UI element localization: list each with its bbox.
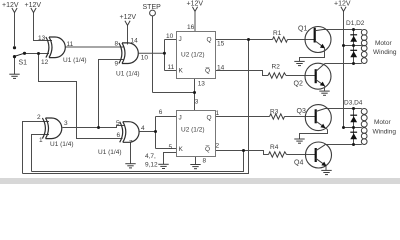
resistor R2 — [268, 64, 286, 79]
junction dot clock — [193, 91, 196, 94]
svg-text:K: K — [179, 146, 184, 153]
svg-text:13: 13 — [198, 80, 206, 87]
wire winding1 center tap — [344, 45, 362, 47]
svg-text:3: 3 — [64, 120, 68, 127]
wire pin9 vertical from XOR3 out — [99, 60, 125, 128]
wire FF2 pins 4,7,9,12 ground stub — [164, 153, 177, 165]
svg-text:U1 (1/4): U1 (1/4) — [50, 141, 73, 148]
transistor Q3 — [297, 105, 332, 139]
svg-text:D3,D4: D3,D4 — [344, 100, 363, 107]
svg-text:U2 (1/2): U2 (1/2) — [181, 127, 204, 134]
svg-text:16: 16 — [187, 24, 195, 31]
svg-text:9: 9 — [115, 61, 119, 68]
ground Q3 emitter — [294, 139, 304, 143]
svg-text:2: 2 — [216, 143, 220, 150]
svg-text:7: 7 — [129, 140, 133, 147]
ground Q4 emitter — [321, 170, 331, 174]
transistor Q4 — [294, 142, 332, 170]
svg-text:Q3: Q3 — [297, 108, 306, 115]
wire feedback outer: pin15 net down to XOR3 pin2 — [23, 40, 249, 174]
power symbol +12V (U2 pin16) — [187, 1, 204, 12]
svg-text:Motor: Motor — [374, 119, 391, 126]
junction dot pin12 — [37, 52, 40, 55]
svg-text:S1: S1 — [19, 60, 28, 67]
wire U1b out pin10 to J/K — [139, 52, 165, 54]
svg-text:11: 11 — [67, 41, 74, 48]
wire +12V to U1 pin 14 — [127, 25, 129, 44]
svg-text:6: 6 — [117, 132, 121, 139]
junction dot U1b out / J-K FF1 — [163, 52, 166, 55]
wire diode column 1 — [353, 30, 355, 64]
diode D3 — [350, 115, 357, 122]
wire XOR3 pin2 input — [23, 122, 50, 174]
svg-text:4: 4 — [141, 125, 145, 132]
xor gate U1d (1/4) pins 5,6,4,7 — [120, 122, 139, 143]
ground Q2 emitter — [319, 91, 329, 95]
svg-text:R4: R4 — [270, 144, 279, 151]
ground pins 4,7,9,12 — [158, 164, 168, 168]
resistor R4 — [269, 144, 287, 157]
motor winding 2 coil — [361, 109, 367, 145]
svg-text:J: J — [179, 115, 182, 122]
wire J input FF2 — [156, 116, 177, 118]
svg-text:U1 (1/4): U1 (1/4) — [98, 149, 121, 156]
svg-text:D1,D2: D1,D2 — [346, 20, 365, 27]
wire XOR4 pin7 ground stem — [130, 142, 132, 163]
svg-text:Q2: Q2 — [294, 81, 303, 88]
wire STEP vertical — [152, 16, 154, 93]
svg-text:+12V: +12V — [187, 1, 204, 8]
svg-text:+12V: +12V — [2, 2, 19, 9]
ground below S1 — [9, 74, 19, 78]
svg-text:U1 (1/4): U1 (1/4) — [116, 71, 139, 78]
diode D4 — [350, 132, 357, 139]
svg-text:12: 12 — [41, 59, 49, 66]
svg-text:Q̅: Q̅ — [205, 67, 210, 75]
svg-text:10: 10 — [166, 33, 174, 40]
svg-text:+12V: +12V — [120, 14, 137, 21]
wire S1 to pin 12 — [25, 53, 50, 55]
junction dots diode column 1 — [352, 28, 355, 31]
power +12V rail 1 (to S1) — [14, 13, 16, 47]
wire FF1 power pin16 — [194, 12, 196, 32]
wire J/K vertical FF2 — [155, 117, 157, 149]
wire STEP to clocks — [153, 92, 195, 94]
wire XOR4 out pin4 to J/K FF2 — [140, 131, 156, 133]
svg-text:Q: Q — [207, 115, 212, 122]
wire S1 pole to ground — [14, 58, 16, 75]
diode D2 — [350, 50, 357, 57]
svg-text:6: 6 — [159, 109, 163, 116]
svg-text:8: 8 — [115, 41, 119, 48]
svg-text:Q̅: Q̅ — [205, 145, 210, 153]
wire Qbar1 output pin14 to R2 with jog — [216, 71, 269, 76]
wire XOR3 out pin3 to XOR4 pin5 with jog — [63, 126, 125, 128]
svg-text:14: 14 — [131, 38, 139, 45]
svg-text:11: 11 — [168, 64, 175, 71]
junction dot pin15 feedback — [247, 38, 250, 41]
svg-text:Q4: Q4 — [294, 160, 303, 167]
flip-flop U2a (1/2) box — [166, 24, 225, 87]
junction dot XOR3 out / pin9 — [97, 126, 100, 129]
wire R4 to Q4 base — [287, 154, 316, 156]
gray footer band — [0, 178, 400, 184]
svg-text:5: 5 — [116, 120, 120, 127]
xor gate U1b (1/4) pins 8,9,10,14 — [119, 43, 138, 64]
wire Qbar2 output pin2 FF2 to R4 with jog — [216, 151, 269, 155]
svg-text:J: J — [179, 36, 182, 43]
wire XOR3 pin1 input — [32, 135, 50, 172]
svg-text:Q: Q — [207, 37, 212, 44]
wire J/K vertical FF1 — [164, 40, 166, 71]
wire R1 to Q1 base — [288, 39, 316, 41]
junction dot pin2 feedback — [242, 149, 245, 152]
xor gate U1c (1/4) pins 2,1,3 — [42, 118, 61, 139]
wire clock vertical pin13/pin3 — [194, 79, 196, 111]
switch S1 — [13, 46, 27, 66]
svg-text:4,7,: 4,7, — [145, 153, 156, 160]
STEP input terminal — [143, 4, 162, 16]
svg-text:K: K — [179, 68, 184, 75]
svg-text:Winding: Winding — [373, 129, 397, 136]
ground Q1 emitter — [294, 61, 304, 65]
svg-text:1: 1 — [216, 110, 220, 117]
svg-text:1: 1 — [39, 137, 43, 144]
svg-text:+12V: +12V — [25, 2, 42, 9]
svg-text:R3: R3 — [270, 109, 279, 116]
diode D1 — [350, 35, 357, 42]
transistor Q2 — [294, 63, 332, 91]
wire pin12 net down-right to XOR4 pin 6 — [39, 54, 123, 139]
wire feedback inner: pin2 net down to XOR3 pin1 — [32, 151, 244, 172]
power symbol +12V (U1 pin14) — [120, 14, 137, 25]
motor winding 1 coil — [361, 29, 367, 63]
wire R2 to Q2 base — [286, 75, 316, 77]
wire K input FF1 — [165, 70, 177, 72]
svg-text:U1 (1/4): U1 (1/4) — [63, 57, 86, 64]
svg-text:Q1: Q1 — [298, 26, 307, 33]
ground below XOR4 pin7 — [125, 164, 135, 168]
flip-flop U2b (1/2) box — [159, 98, 220, 164]
wire Q1 collector to winding top — [325, 29, 362, 31]
svg-text:2: 2 — [37, 114, 41, 121]
junction dots diode column 2 — [352, 107, 355, 110]
wire +12V rail right — [343, 12, 345, 128]
wire winding2 center tap — [344, 127, 362, 129]
wire Q2 collector to winding1 bottom — [325, 63, 362, 65]
wire K input FF2 — [156, 148, 177, 150]
svg-text:Motor: Motor — [375, 40, 392, 47]
wire U1a out pin11 to U1b pin8 — [66, 46, 125, 48]
svg-text:9,12: 9,12 — [145, 162, 158, 169]
transistor Q1 — [298, 26, 331, 62]
power symbol +12V (motor rail) — [334, 1, 351, 12]
ground FF2 pin 8 — [190, 165, 200, 169]
wire FF2 pin8 ground stem — [195, 157, 197, 165]
wire Q3 collector to winding2 top — [325, 108, 362, 110]
wire Q2 output pin1 FF2 to R3 — [216, 116, 270, 118]
svg-text:U2 (1/2): U2 (1/2) — [181, 52, 204, 59]
wire R3 to Q3 base — [285, 116, 316, 118]
junction dot XOR4 out / J-K FF2 — [154, 130, 157, 133]
svg-text:R1: R1 — [273, 30, 282, 37]
svg-text:+12V: +12V — [334, 1, 351, 8]
wire J input FF1 — [165, 39, 177, 41]
power symbol +12V (S1) — [2, 2, 19, 13]
svg-text:14: 14 — [217, 65, 225, 72]
power +12V rail 2 (to U1 pin13) — [34, 13, 53, 41]
xor gate U1a (1/4) pins 13,12,11 — [46, 37, 65, 58]
svg-text:5: 5 — [169, 144, 173, 151]
svg-text:Winding: Winding — [373, 49, 397, 56]
svg-text:R2: R2 — [272, 64, 281, 71]
resistor R3 — [270, 109, 285, 120]
power symbol +12V (pin13) — [25, 2, 42, 13]
resistor R1 — [273, 30, 288, 42]
svg-text:10: 10 — [141, 54, 149, 61]
wire Q4 collector to winding2 bottom — [325, 144, 362, 146]
svg-text:8: 8 — [203, 158, 207, 165]
wire Q1 output pin15 to R1 — [216, 39, 273, 41]
svg-text:15: 15 — [217, 40, 225, 47]
wire diode column 2 — [353, 109, 355, 145]
pins 4,7,9,12 grounded note — [145, 153, 158, 169]
svg-text:13: 13 — [38, 35, 46, 42]
svg-text:3: 3 — [195, 98, 199, 105]
